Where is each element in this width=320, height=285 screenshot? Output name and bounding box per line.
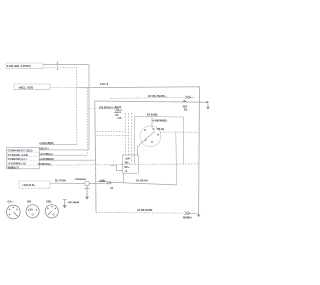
inner box left edge bbox=[133, 116, 135, 163]
ignition switch S1 bbox=[138, 117, 161, 155]
battery wire W10 bbox=[112, 182, 177, 185]
gauge G1 bbox=[6, 201, 20, 219]
svg-text:A+M,5: A+M,5 bbox=[115, 111, 122, 114]
dashed wire from J2 bbox=[50, 87, 77, 89]
svg-text:+A GY/BK(+): +A GY/BK(+) bbox=[39, 153, 53, 156]
row2 wire bbox=[40, 149, 89, 151]
svg-text:25V: 25V bbox=[27, 201, 32, 204]
svg-text:+(B)+(B)(B): +(B)+(B)(B) bbox=[68, 202, 80, 204]
svg-text:+A BK/WH(B): +A BK/WH(B) bbox=[152, 120, 167, 123]
svg-text:GY WH BK +A GB,: GY WH BK +A GB, bbox=[8, 154, 29, 157]
ground under N1 bbox=[85, 186, 90, 200]
row4 wire bbox=[40, 159, 96, 161]
svg-text:5 GY 8: 5 GY 8 bbox=[100, 82, 109, 86]
row labels bbox=[38, 142, 54, 166]
svg-text:2A: 2A bbox=[30, 208, 33, 212]
small box K1 bbox=[123, 155, 139, 173]
svg-text:GN, BEL 3.05(75): GN, BEL 3.05(75) bbox=[9, 64, 31, 68]
svg-text:GY/WH+BK GY 11C(1): GY/WH+BK GY 11C(1) bbox=[8, 149, 33, 152]
wire from J1 solid to right corner bbox=[43, 65, 89, 150]
dashed wire from J1 down to table row1 bbox=[43, 67, 77, 144]
svg-text:TB-Da: TB-Da bbox=[157, 128, 165, 131]
svg-text:+A (B)+(B)(B): +A (B)+(B)(B) bbox=[39, 142, 54, 145]
wire W9 vertical x=176 bbox=[175, 132, 178, 185]
svg-text:38A,: 38A, bbox=[125, 162, 130, 165]
wire W5 left long vertical bbox=[95, 101, 96, 212]
dashed wire y=135.2 bbox=[97, 134, 129, 136]
svg-text:+GA+: +GA+ bbox=[125, 157, 132, 160]
svg-text:+A BK/WH(B): +A BK/WH(B) bbox=[39, 158, 54, 161]
svg-text:GY, BK, BL/BK +: GY, BK, BL/BK + bbox=[148, 95, 167, 98]
table T1 bbox=[7, 148, 40, 170]
svg-text:+ (B) BK: + (B) BK bbox=[97, 181, 106, 183]
label SOLENOID lead bbox=[89, 108, 122, 110]
svg-text:+(B) GY+: +(B) GY+ bbox=[39, 148, 49, 150]
svg-text:GY BK BL/BK: GY BK BL/BK bbox=[137, 209, 153, 212]
purple dash overlay on W5 bbox=[95, 106, 96, 212]
svg-text:WH/BK+: WH/BK+ bbox=[183, 218, 193, 220]
svg-text:BK+,: BK+, bbox=[125, 167, 131, 169]
inner box top line W8 bbox=[135, 115, 184, 118]
svg-text:+GA+4: +GA+4 bbox=[115, 108, 123, 111]
arrow down at end of W1 bbox=[197, 215, 200, 218]
svg-text:+2 GY/WH(+) (1): +2 GY/WH(+) (1) bbox=[8, 162, 26, 165]
junction node N1 bbox=[75, 178, 106, 186]
connector J1 bbox=[6, 63, 43, 68]
svg-text:5A 12V BA: 5A 12V BA bbox=[136, 180, 148, 183]
svg-text:1L+5A: 1L+5A bbox=[115, 106, 122, 109]
svg-text:GY/WH BK(+) C +: GY/WH BK(+) C + bbox=[8, 158, 28, 161]
svg-text:GY/WH (B)+: GY/WH (B)+ bbox=[38, 164, 52, 166]
dashed wire y=131.3 bbox=[97, 130, 126, 132]
wire bundle verticals bbox=[125, 113, 132, 164]
svg-text:WH(B) (?): WH(B) (?) bbox=[8, 166, 19, 169]
dashed top wire W7 bbox=[111, 97, 187, 98]
svg-text:+B,: +B, bbox=[110, 188, 114, 190]
svg-text:+ 5(A) N B+: + 5(A) N B+ bbox=[22, 184, 36, 187]
wire N1 to right connector bbox=[89, 182, 105, 184]
svg-text:GB5,: GB5, bbox=[46, 201, 52, 204]
connector arrow A1 bbox=[56, 61, 58, 70]
arrow down symbol right side bbox=[206, 104, 210, 109]
gauge G3 bbox=[45, 201, 58, 218]
table row wires bbox=[40, 144, 77, 146]
ground GND2 bbox=[63, 200, 80, 209]
svg-text:+4A: +4A bbox=[115, 114, 119, 117]
connector J2 bbox=[14, 84, 50, 90]
svg-text:3A,: 3A, bbox=[184, 109, 188, 112]
bottom wire W11 bbox=[96, 211, 184, 214]
connector pin text cluster bbox=[115, 106, 124, 120]
dashed wire y=132 right bbox=[160, 131, 199, 133]
svg-text:BL TX BK: BL TX BK bbox=[55, 179, 66, 182]
wire W1 main top to right side down bbox=[77, 87, 200, 216]
bottom right connector K3 bbox=[183, 212, 197, 220]
inner box right edge bbox=[183, 117, 185, 164]
connector box K2 bbox=[19, 181, 50, 188]
wire W4 dashed x=87.3 to table row3 bbox=[86, 88, 88, 155]
gauge G2 bbox=[26, 201, 39, 218]
svg-text:GA+..: GA+.. bbox=[8, 201, 15, 204]
inline connector on W7 bbox=[186, 96, 194, 99]
svg-text:SA 5A(B): SA 5A(B) bbox=[147, 113, 157, 116]
wire from K2 to N1 bbox=[50, 182, 85, 184]
jog wire into K1 bbox=[110, 165, 123, 170]
purple dash overlay on right vertical wire bbox=[198, 90, 201, 214]
wire W6 top solid line with right arrow bbox=[95, 101, 208, 102]
row3 wire bbox=[40, 154, 88, 156]
dashed wire y=164.5 long bbox=[40, 164, 199, 165]
inline connector left of W10 bbox=[100, 180, 114, 190]
wire below K1 bbox=[123, 173, 125, 182]
svg-text:+B(C), 10(T): +B(C), 10(T) bbox=[18, 85, 33, 89]
svg-text:TERMINAL: TERMINAL bbox=[75, 178, 87, 181]
svg-text:L5A+: L5A+ bbox=[117, 116, 123, 119]
